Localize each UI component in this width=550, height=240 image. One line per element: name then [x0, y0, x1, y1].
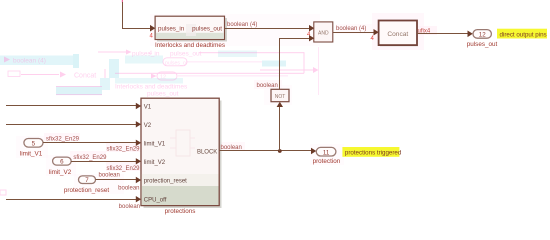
logic block: AND — [314, 22, 333, 42]
wire: limit_V2 from inport 6 — [71, 158, 141, 164]
svg-text:pulses_in: pulses_in — [132, 51, 160, 58]
pink wash patches behind real elements — [16, 13, 437, 194]
annotation: protections triggered — [342, 147, 401, 157]
svg-text:BLOCK: BLOCK — [197, 150, 217, 156]
wire: AND output to Concat — [333, 29, 379, 36]
block: protections (subsystem) — [141, 98, 222, 208]
svg-text:limit_V2: limit_V2 — [49, 169, 72, 176]
wire: Concat output to outport 12 — [417, 31, 473, 38]
svg-text:sfix32_En29: sfix32_En29 — [106, 166, 140, 172]
ghost overlay: small mark bottom-left — [0, 190, 6, 195]
svg-text:pulses_out: pulses_out — [192, 25, 222, 32]
svg-text:12: 12 — [479, 32, 486, 39]
wire: CPU_off input — [6, 196, 141, 202]
svg-text:Interlocks and deadtimes: Interlocks and deadtimes — [155, 42, 225, 49]
svg-text:6: 6 — [60, 159, 64, 166]
svg-text:limit_V1: limit_V1 — [20, 150, 43, 157]
svg-text:boolean: boolean — [119, 204, 140, 210]
svg-text:boolean: boolean — [99, 173, 120, 179]
wire: Interlocks pulses_out to AND input 1 — [225, 25, 315, 32]
svg-text:V2: V2 — [144, 123, 152, 129]
svg-text:sfix32_En29: sfix32_En29 — [46, 136, 80, 142]
svg-text:7: 7 — [85, 177, 89, 184]
wire: protection_reset from inport 7 — [96, 177, 142, 183]
svg-text:sfix32_En29: sfix32_En29 — [106, 147, 140, 153]
logic block: NOT — [271, 89, 289, 101]
wire: BLOCK output to outport 11 — [220, 148, 317, 154]
svg-text:boolean (4): boolean (4) — [13, 58, 46, 65]
svg-text:boolean (4): boolean (4) — [227, 22, 257, 28]
svg-text:limit_V1: limit_V1 — [144, 141, 166, 147]
svg-text:pulses_out: pulses_out — [467, 41, 498, 48]
svg-text:12: 12 — [160, 75, 166, 81]
svg-text:ufix4: ufix4 — [418, 28, 431, 34]
svg-text:protection: protection — [313, 158, 341, 165]
inport 5 — [24, 139, 43, 148]
svg-text:protections: protections — [165, 208, 196, 215]
svg-text:boolean: boolean — [118, 186, 139, 192]
svg-text:boolean (4): boolean (4) — [336, 26, 366, 32]
outport 12 — [473, 30, 491, 39]
svg-text:4: 4 — [149, 51, 152, 57]
svg-text:protection_reset: protection_reset — [64, 187, 109, 194]
wire: into Interlocks (from top edge, down then right) — [122, 0, 156, 32]
svg-text:boolean: boolean — [221, 145, 242, 151]
svg-text:boolean: boolean — [257, 83, 278, 89]
wire: V2 input — [6, 121, 141, 127]
svg-text:protections triggered: protections triggered — [345, 150, 402, 157]
block: Interlocks and deadtimes (subsystem) — [155, 16, 227, 41]
inport 6 — [53, 157, 72, 166]
svg-text:pulses_out: pulses_out — [170, 51, 202, 58]
svg-text:limit_V2: limit_V2 — [144, 160, 166, 166]
svg-text:pulses_out: pulses_out — [147, 91, 179, 98]
block: Concat — [379, 21, 418, 47]
svg-text:AND: AND — [318, 30, 329, 36]
annotation: direct output pins — [497, 29, 547, 39]
svg-text:sfix32_En29: sfix32_En29 — [73, 155, 107, 161]
svg-text:Concat: Concat — [74, 73, 96, 80]
svg-text:pulses_in: pulses_in — [158, 25, 185, 32]
svg-text:protection_reset: protection_reset — [144, 179, 187, 185]
inport 7 — [79, 176, 96, 184]
svg-text:11: 11 — [323, 149, 330, 156]
outport 11 — [316, 147, 336, 156]
svg-text:NOT: NOT — [275, 94, 286, 100]
junction node — [278, 149, 282, 153]
svg-text:direct output pins: direct output pins — [500, 31, 547, 38]
wire: NOT output up then right to AND input 2 — [279, 35, 314, 89]
svg-text:5: 5 — [32, 140, 36, 147]
wire: limit_V1 from inport 5 — [43, 140, 141, 146]
svg-text:V1: V1 — [144, 104, 152, 110]
svg-text:pulses_o: pulses_o — [165, 60, 186, 66]
svg-text:Concat: Concat — [387, 31, 408, 38]
ghost overlay: cyan highlight band top-left — [0, 51, 286, 96]
wire: branch up to NOT input — [277, 102, 283, 151]
svg-text:CPU_off: CPU_off — [144, 198, 167, 204]
ghost overlay: faded pink duplicate wires and text — [4, 47, 319, 98]
wire: V1 input — [6, 103, 141, 109]
svg-text:Interlocks and deadtimes: Interlocks and deadtimes — [115, 84, 188, 91]
